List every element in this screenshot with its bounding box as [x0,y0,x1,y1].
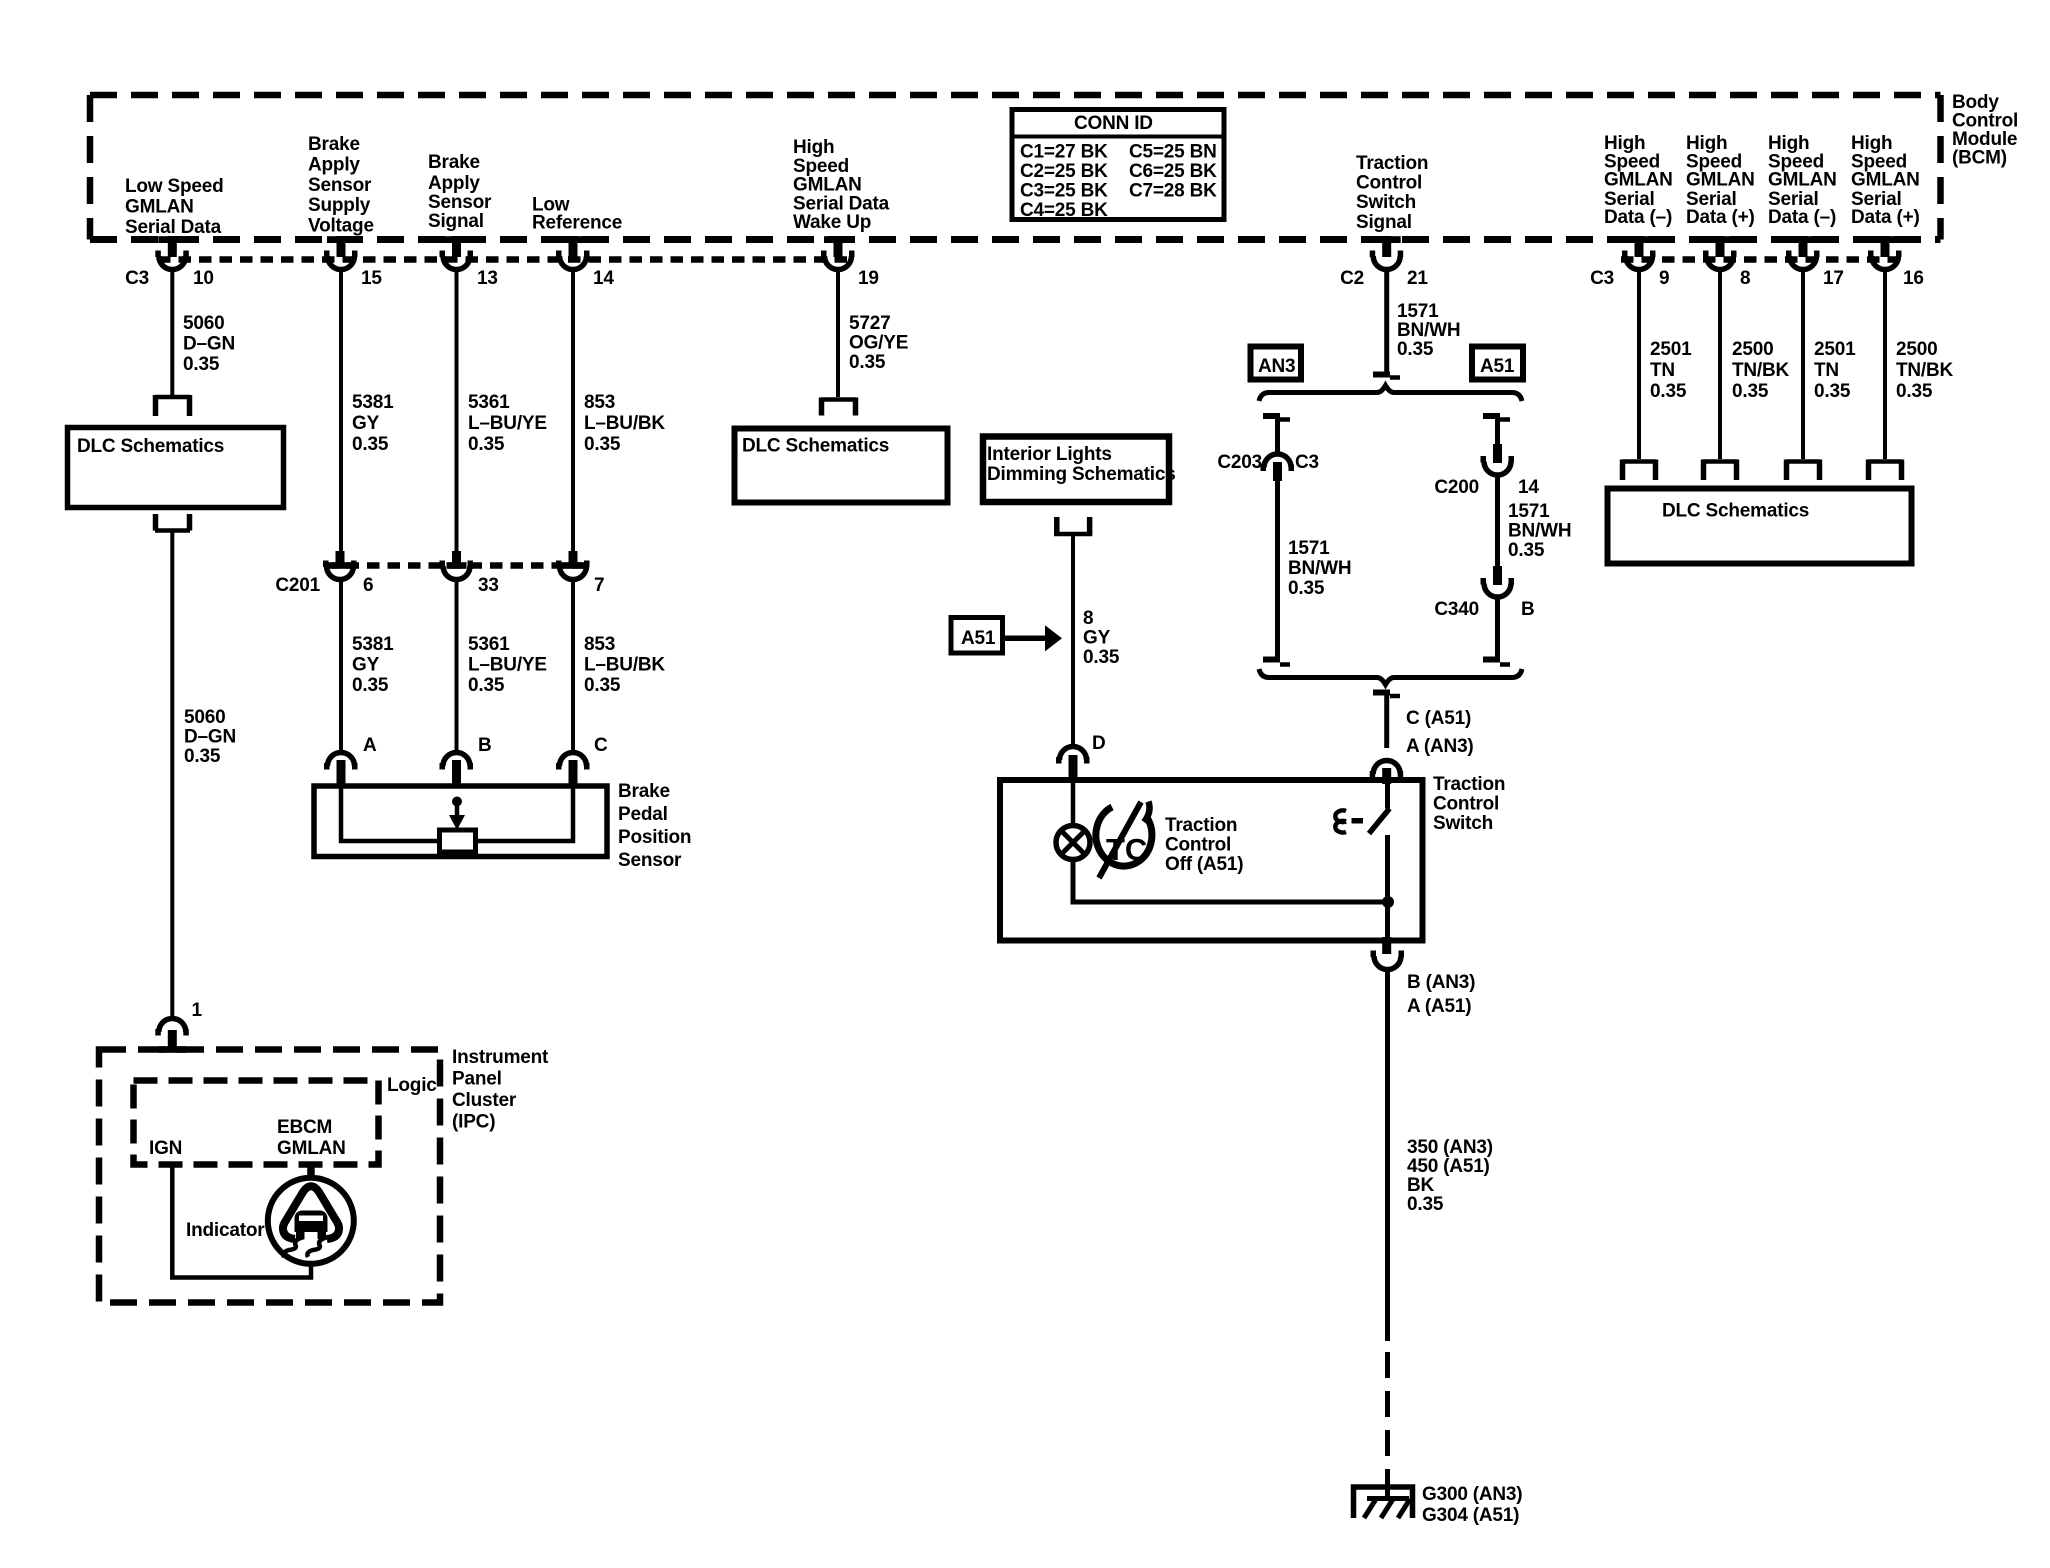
svg-text:0.35: 0.35 [352,675,389,696]
connector sensor pin B [440,735,492,786]
net label EBCM GMLAN [277,1117,346,1159]
svg-text:GY: GY [1083,628,1111,649]
svg-text:Switch: Switch [1433,813,1493,834]
node label Low Speed GMLAN Serial Data [125,176,224,238]
svg-text:0.35: 0.35 [1288,578,1325,599]
svg-text:Voltage: Voltage [308,216,374,237]
svg-text:Dimming Schematics: Dimming Schematics [987,464,1176,485]
svg-text:19: 19 [858,268,879,289]
svg-text:Sensor: Sensor [428,192,492,213]
svg-text:TN/BK: TN/BK [1732,360,1790,381]
svg-text:0.35: 0.35 [584,675,621,696]
svg-text:A (A51): A (A51) [1407,996,1471,1017]
svg-text:A51: A51 [1480,356,1515,377]
svg-text:C3=25 BK: C3=25 BK [1020,181,1108,202]
svg-text:L–BU/BK: L–BU/BK [584,413,665,434]
node box AN3 [1251,347,1302,380]
svg-text:Sensor: Sensor [618,850,682,871]
off-page staple above middle DLC box [821,398,856,416]
wire from pin D to lamp [1071,783,1076,824]
svg-text:0.35: 0.35 [468,675,505,696]
wire 8 GY from dimming schematic to switch pin D [1071,536,1075,747]
svg-text:G304 (A51): G304 (A51) [1422,1505,1519,1526]
svg-text:5361: 5361 [468,634,510,655]
svg-text:Interior Lights: Interior Lights [987,444,1112,465]
svg-text:GMLAN: GMLAN [125,197,194,218]
box Interior Lights Dimming Schematics [983,437,1176,503]
connector C201 pin 7 [556,551,604,596]
wire label 1571 BN/WH 0.35 right branch [1508,501,1571,561]
wire start hook right branch [1483,416,1510,420]
svg-text:Control: Control [1433,794,1499,815]
connector C200 pin 14 [1434,444,1539,498]
svg-text:1571: 1571 [1288,538,1330,559]
wire start hook left branch [1263,416,1290,420]
svg-text:L–BU/YE: L–BU/YE [468,655,547,676]
connector row dotted line C3 right group [1621,256,1900,263]
svg-text:Traction: Traction [1165,815,1237,836]
junction dot [1382,896,1394,908]
off-page staple below Interior Lights box [1054,517,1092,534]
svg-text:5381: 5381 [352,634,394,655]
wire from lamp to switch common [1073,860,1388,903]
connector C340 pin B [1434,566,1534,620]
svg-text:7: 7 [594,575,604,596]
svg-text:C6=25 BK: C6=25 BK [1129,161,1217,182]
svg-text:2501: 2501 [1814,339,1856,360]
svg-text:Data (+): Data (+) [1851,207,1920,228]
svg-text:10: 10 [193,268,214,289]
wire IGN to indicator return [172,1165,311,1278]
svg-text:L–BU/BK: L–BU/BK [584,655,665,676]
node label Brake Apply Sensor Supply Voltage [308,134,374,237]
svg-text:0.35: 0.35 [184,746,221,767]
svg-text:C4=25 BK: C4=25 BK [1020,200,1108,221]
svg-text:GMLAN: GMLAN [1686,170,1755,191]
svg-text:14: 14 [1518,477,1539,498]
svg-text:BN/WH: BN/WH [1397,320,1460,341]
connector BCM pin 15 [324,236,382,289]
wire into ground [1385,1469,1390,1501]
svg-text:Traction: Traction [1356,153,1428,174]
box Brake Pedal Position Sensor [314,781,691,871]
svg-text:853: 853 [584,392,615,413]
svg-text:Control: Control [1356,173,1422,194]
connector row dotted line C3 left group [158,256,852,263]
svg-text:AN3: AN3 [1258,356,1295,377]
svg-text:Indicator: Indicator [186,1220,265,1241]
svg-text:9: 9 [1659,268,1669,289]
svg-text:21: 21 [1407,268,1428,289]
connector BCM pin 8 [1703,236,1750,289]
wire 853 from C201 to sensor pin C [571,578,575,753]
svg-text:IGN: IGN [149,1138,182,1159]
wire from pin 14 to C201 [571,268,575,552]
wire 2500 from pin 8 to DLC [1718,268,1722,459]
svg-text:0.35: 0.35 [584,434,621,455]
svg-text:2500: 2500 [1732,339,1773,360]
svg-text:Wake Up: Wake Up [793,212,871,233]
wire 1571 from pin 21 to splice brace [1384,268,1389,373]
connector switch pin C/A [1370,761,1404,785]
connector BCM C2 pin 21 [1340,236,1428,289]
label Instrument Panel Cluster (IPC) [452,1047,549,1133]
connector BCM C3 pin 9 [1590,236,1669,289]
wire label 853 L-BU/BK 0.35 upper [584,392,665,455]
off-page staple above left DLC box [155,395,190,416]
svg-text:0.35: 0.35 [1896,381,1933,402]
wire label 5727 OG/YE 0.35 [849,313,908,373]
svg-text:Sensor: Sensor [308,175,372,196]
svg-text:0.35: 0.35 [849,352,886,373]
wire label 5381 GY 0.35 lower [352,634,394,696]
indicator icon: skid triangle [283,1186,339,1257]
svg-text:GMLAN: GMLAN [793,175,862,196]
svg-text:450 (A51): 450 (A51) [1407,1156,1490,1177]
svg-text:6: 6 [363,575,373,596]
svg-text:Off (A51): Off (A51) [1165,854,1243,875]
svg-text:15: 15 [361,268,382,289]
svg-text:C5=25 BN: C5=25 BN [1129,142,1217,163]
switch momentary actuator symbol [1335,810,1363,832]
node label High Speed GMLAN Serial Data (+) pin16 [1851,133,1920,228]
wire label 5060 D-GN 0.35 lower [184,707,236,767]
svg-text:Logic: Logic [387,1075,437,1096]
wire from brace to traction control switch [1384,695,1389,748]
svg-text:5060: 5060 [184,707,225,728]
wire label 1571 BN/WH 0.35 left branch [1288,538,1351,599]
wire label 5361 L-BU/YE 0.35 upper [468,392,547,455]
svg-text:Brake: Brake [428,152,480,173]
indicator lamp circle [186,1178,354,1264]
label Traction Control Switch [1433,774,1505,834]
svg-text:Traction: Traction [1433,774,1505,795]
wire 350/450 BK solid segment [1385,968,1390,1341]
box Logic dashed [134,1075,438,1165]
wire from pin 15 to C201 [339,268,343,552]
wire label 2500 TN/BK 0.35 second [1896,339,1954,402]
connector C201 pin 33 [440,551,499,596]
CONN ID table [1012,110,1224,222]
wire right branch lower segment [1495,596,1500,660]
connector sensor pin A [324,735,377,786]
lamp Traction Control Off indicator [1056,826,1090,860]
switch blade and terminals [1369,783,1390,938]
wire label 350 (AN3) 450 (A51) BK 0.35 [1407,1137,1493,1215]
svg-text:Signal: Signal [428,211,484,232]
wire label 2501 TN 0.35 [1650,339,1692,402]
svg-text:C2=25 BK: C2=25 BK [1020,161,1108,182]
node label Brake Apply Sensor Signal [428,152,492,232]
wire GMLAN to indicator top [307,1165,315,1180]
off-page staples above right DLC box [1622,460,1656,481]
wire 1571 left branch lower segment [1275,481,1280,660]
svg-text:Signal: Signal [1356,212,1412,233]
svg-text:C7=28 BK: C7=28 BK [1129,181,1217,202]
wire label 8 GY 0.35 [1083,608,1120,668]
svg-text:0.35: 0.35 [352,434,389,455]
svg-text:16: 16 [1903,268,1924,289]
svg-text:Data (+): Data (+) [1686,207,1755,228]
svg-text:(BCM): (BCM) [1952,148,2007,169]
svg-text:C200: C200 [1434,477,1479,498]
svg-text:0.35: 0.35 [1650,381,1687,402]
pin label C (A51) A (AN3) [1406,708,1474,757]
svg-text:Reference: Reference [532,213,622,234]
box DLC Schematics middle [735,429,948,503]
splice brace lower [1259,669,1522,685]
connector IPC pin 1 [155,1000,202,1051]
svg-text:DLC Schematics: DLC Schematics [1662,501,1809,522]
splice brace upper [1259,386,1522,402]
connector BCM pin 14 [556,236,614,289]
wire label 853 L-BU/BK 0.35 lower [584,634,665,696]
svg-text:0.35: 0.35 [1397,339,1434,360]
svg-text:Panel: Panel [452,1069,502,1090]
svg-text:C3: C3 [1295,452,1319,473]
svg-text:C2: C2 [1340,268,1364,289]
svg-text:Switch: Switch [1356,192,1416,213]
box DLC Schematics left [68,428,284,508]
wire end hook right branch bottom [1483,660,1510,665]
wire inside sensor from pin A [341,788,440,841]
label Traction Control Off (A51) [1165,815,1243,875]
svg-text:C3: C3 [125,268,149,289]
svg-text:GMLAN: GMLAN [1604,170,1673,191]
svg-text:17: 17 [1823,268,1844,289]
wire 5381 from C201 to sensor pin A [339,578,343,753]
svg-text:DLC Schematics: DLC Schematics [742,436,889,457]
svg-text:B (AN3): B (AN3) [1407,972,1475,993]
connector C203 / C3 [1217,452,1319,481]
svg-text:C201: C201 [275,575,320,596]
box Traction Control Switch [1000,780,1423,941]
wire right branch upper segment [1495,418,1500,446]
svg-text:C1=27 BK: C1=27 BK [1020,142,1108,163]
svg-text:5727: 5727 [849,313,890,334]
connector BCM pin 17 [1786,236,1844,289]
svg-text:1: 1 [192,1000,203,1021]
svg-text:OG/YE: OG/YE [849,333,908,354]
wire label 5381 GY 0.35 upper [352,392,394,455]
svg-text:1571: 1571 [1508,501,1550,522]
node label Traction Control Switch Signal [1356,153,1428,233]
svg-text:CONN ID: CONN ID [1074,113,1153,134]
svg-text:0.35: 0.35 [1083,647,1120,668]
svg-text:C: C [594,735,608,756]
wire 5727 from pin 19 to DLC Schematics [836,268,840,397]
connector switch pin D [1056,733,1106,782]
svg-text:A: A [363,735,377,756]
wire label 1571 BN/WH 0.35 (C2) [1397,301,1460,360]
svg-text:8: 8 [1740,268,1750,289]
wire left branch upper segment [1275,418,1280,456]
icon TC off [1096,802,1152,879]
svg-text:0.35: 0.35 [1508,540,1545,561]
wire from pin 13 to C201 [455,268,459,552]
svg-text:0.35: 0.35 [468,434,505,455]
svg-text:Apply: Apply [428,173,480,194]
wire 2501 from pin 9 to DLC [1637,268,1641,459]
svg-text:A (AN3): A (AN3) [1406,736,1474,757]
ground G300 (AN3) / G304 (A51) [1354,1484,1523,1526]
svg-text:L–BU/YE: L–BU/YE [468,413,547,434]
wire inside sensor from pin C [475,788,573,841]
svg-text:TN: TN [1814,360,1839,381]
svg-text:GMLAN: GMLAN [1851,170,1920,191]
wire 2500 from pin 16 to DLC [1883,268,1887,459]
wire label 2501 TN 0.35 second [1814,339,1856,402]
svg-text:B: B [478,735,492,756]
node box A51 [1472,347,1523,380]
svg-text:BN/WH: BN/WH [1288,558,1351,579]
svg-text:GMLAN: GMLAN [277,1138,346,1159]
svg-text:Supply: Supply [308,195,371,216]
svg-text:C340: C340 [1434,599,1479,620]
svg-text:C (A51): C (A51) [1406,708,1471,729]
svg-text:Brake: Brake [308,134,360,155]
connector switch pin B/A below box [1371,937,1405,969]
svg-text:Cluster: Cluster [452,1090,517,1111]
wire 5060 from DLC to IPC pin 1 [170,532,174,1019]
svg-text:D–GN: D–GN [184,727,236,748]
svg-text:Position: Position [618,827,691,848]
svg-text:Apply: Apply [308,155,360,176]
BCM dashed box (Body Control Module) [90,95,1941,240]
svg-text:Data (–): Data (–) [1768,207,1836,228]
box Instrument Panel Cluster dashed [99,1050,440,1303]
svg-text:GMLAN: GMLAN [1768,170,1837,191]
potentiometer resistive element [440,830,476,852]
svg-text:5060: 5060 [183,313,224,334]
label Body Control Module (BCM) [1952,92,2018,169]
svg-text:8: 8 [1083,608,1093,629]
svg-text:GY: GY [352,413,380,434]
svg-text:C203: C203 [1217,452,1262,473]
wire 2501 from pin 17 to DLC [1801,268,1805,459]
svg-text:33: 33 [478,575,499,596]
svg-text:Data (–): Data (–) [1604,207,1672,228]
wire end hook left branch bottom [1263,660,1290,665]
svg-text:0.35: 0.35 [183,354,220,375]
svg-text:Pedal: Pedal [618,804,668,825]
connector C201 pin 6 [275,551,373,596]
node label High Speed GMLAN Serial Data (-) pin9 [1604,133,1673,228]
potentiometer wiper arrow from pin B [449,797,465,831]
svg-text:D: D [1092,733,1106,754]
node label High Speed GMLAN Serial Data (+) pin8 [1686,133,1755,228]
svg-text:(IPC): (IPC) [452,1112,495,1133]
svg-text:5381: 5381 [352,392,394,413]
box DLC Schematics right [1608,489,1912,564]
svg-text:B: B [1521,599,1535,620]
svg-text:2501: 2501 [1650,339,1692,360]
svg-text:5361: 5361 [468,392,510,413]
connector sensor pin C [556,735,608,786]
svg-text:D–GN: D–GN [183,334,235,355]
svg-text:TN: TN [1650,360,1675,381]
svg-text:BN/WH: BN/WH [1508,521,1571,542]
svg-text:0.35: 0.35 [1814,381,1851,402]
node box A51 with arrow [951,618,1062,654]
svg-text:C3: C3 [1590,268,1614,289]
svg-text:350 (AN3): 350 (AN3) [1407,1137,1493,1158]
connector BCM pin 13 [440,236,498,289]
node label Low Reference [532,195,622,234]
svg-text:0.35: 0.35 [1732,381,1769,402]
svg-text:Instrument: Instrument [452,1047,549,1068]
wire 5060 from pin 10 to DLC Schematics [170,268,174,397]
svg-text:High: High [793,137,834,158]
connector BCM pin 19 [821,236,879,289]
wire label 5361 L-BU/YE 0.35 lower [468,634,547,696]
wire 5361 from C201 to sensor pin B [455,578,459,753]
svg-text:BK: BK [1407,1175,1435,1196]
wire 350/450 BK dashed segment [1385,1352,1390,1484]
svg-text:1571: 1571 [1397,301,1439,322]
wire label 2500 TN/BK 0.35 [1732,339,1790,402]
svg-text:A51: A51 [961,628,996,649]
svg-text:Brake: Brake [618,781,670,802]
node label High Speed GMLAN Serial Data (-) pin17 [1768,133,1837,228]
svg-text:G300 (AN3): G300 (AN3) [1422,1484,1522,1505]
svg-text:DLC Schematics: DLC Schematics [77,436,224,457]
wire label 5060 D-GN 0.35 upper [183,313,235,375]
pin label B (AN3) A (A51) [1407,972,1475,1017]
svg-text:Control: Control [1165,835,1231,856]
connector row C201 dotted line [326,562,590,569]
connector BCM C3 pin 10 [125,236,214,289]
wire end hook at bottom of 1571 C2 wire [1373,375,1400,378]
wire start hook below lower brace [1373,693,1400,697]
svg-text:GY: GY [352,655,380,676]
svg-text:Low Speed: Low Speed [125,176,224,197]
svg-text:2500: 2500 [1896,339,1937,360]
svg-text:14: 14 [593,268,614,289]
svg-text:853: 853 [584,634,615,655]
node label High Speed GMLAN Serial Data Wake Up [793,137,890,233]
svg-text:Serial Data: Serial Data [125,217,222,238]
wire 1571 right branch middle segment [1495,474,1500,568]
edge dash merge under pin stubs [158,236,1899,1053]
svg-text:EBCM: EBCM [277,1117,332,1138]
svg-text:0.35: 0.35 [1407,1194,1444,1215]
off-page staple below left DLC box [155,514,190,531]
svg-text:TN/BK: TN/BK [1896,360,1954,381]
svg-text:13: 13 [477,268,498,289]
connector BCM pin 16 [1868,236,1924,289]
